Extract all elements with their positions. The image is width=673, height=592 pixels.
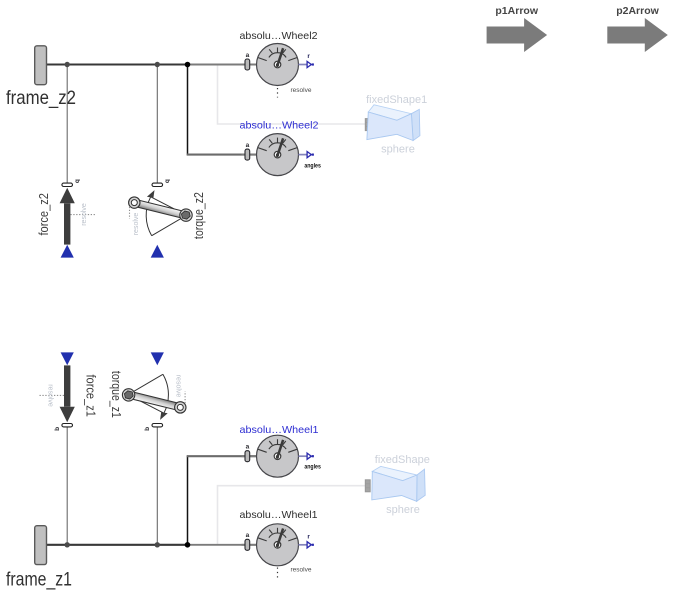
svg-text:r: r (307, 53, 310, 60)
svg-text:frame_z1: frame_z1 (6, 569, 72, 591)
svg-text:sphere: sphere (381, 144, 415, 156)
svg-text:force_z2: force_z2 (37, 193, 51, 236)
svg-text:absolu…Wheel1: absolu…Wheel1 (240, 424, 319, 436)
svg-text:p2Arrow: p2Arrow (616, 5, 659, 17)
svg-text:angles: angles (304, 163, 321, 169)
svg-text:absolu…Wheel2: absolu…Wheel2 (240, 119, 319, 131)
svg-text:sphere: sphere (386, 504, 420, 516)
svg-text:resolve: resolve (291, 567, 312, 574)
svg-text:force_z1: force_z1 (83, 374, 97, 417)
svg-text:absolu…Wheel1: absolu…Wheel1 (240, 509, 318, 521)
svg-text:r: r (307, 533, 310, 540)
svg-text:torque_z2: torque_z2 (192, 192, 206, 239)
svg-text:frame_z2: frame_z2 (6, 87, 76, 109)
svg-text:p1Arrow: p1Arrow (495, 5, 538, 17)
svg-text:torque_z1: torque_z1 (109, 371, 123, 418)
svg-text:fixedShape: fixedShape (375, 454, 430, 466)
svg-text:resolve: resolve (291, 87, 312, 94)
svg-text:absolu…Wheel2: absolu…Wheel2 (240, 30, 318, 42)
svg-text:angles: angles (304, 464, 321, 470)
svg-text:fixedShape1: fixedShape1 (366, 94, 427, 106)
